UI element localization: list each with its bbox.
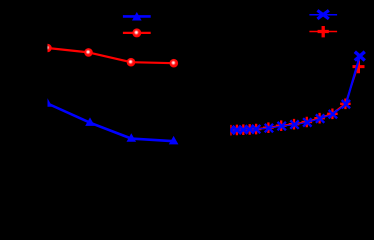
LEFT SUBPLOT xyxy=(43,44,179,145)
blue x marker 8 xyxy=(290,120,298,128)
red plus marker 9 xyxy=(302,117,313,128)
red series line (left plot) xyxy=(48,48,174,63)
blue x marker 11 xyxy=(329,110,337,118)
legend red line xyxy=(123,32,151,34)
legend blue line xyxy=(309,14,337,16)
red circle marker 1 xyxy=(43,44,52,53)
blue x marker 9 xyxy=(303,118,311,126)
blue x marker 2 xyxy=(233,126,241,134)
chart figure: two black-background subplots xyxy=(0,0,374,178)
blue triangle marker 4 xyxy=(169,136,179,145)
blue triangle marker 3 xyxy=(127,133,137,142)
legend red plus xyxy=(318,26,329,37)
blue x marker 10 xyxy=(316,114,324,122)
legend blue x xyxy=(317,10,328,19)
red plus marker 5 xyxy=(251,124,262,135)
red plus marker 6 xyxy=(263,122,274,133)
red plus marker 10 xyxy=(314,113,325,124)
blue triangle marker 1 xyxy=(43,98,53,107)
red plus marker 11 xyxy=(327,109,338,120)
red plus marker 3 xyxy=(238,124,249,135)
red plus marker 12 xyxy=(340,99,351,110)
blue x marker 1 xyxy=(226,126,234,134)
blue x marker 6 xyxy=(265,124,273,132)
red plus marker 8 xyxy=(289,119,300,130)
blue series line (left plot) xyxy=(48,104,174,142)
legend red circle xyxy=(132,28,141,37)
red series line (right plot, spike) xyxy=(345,67,357,104)
red circle marker 4 xyxy=(170,59,179,68)
legend red line xyxy=(309,31,337,33)
blue x marker 4 xyxy=(246,125,254,133)
RIGHT LEGEND xyxy=(309,10,337,37)
blue x markers (right plot) xyxy=(226,100,350,134)
RIGHT SUBPLOT xyxy=(225,52,365,136)
red plus markers (right plot) xyxy=(225,99,351,136)
red plus marker 7 xyxy=(276,120,287,131)
legend blue line xyxy=(123,15,151,18)
blue x marker 12 xyxy=(342,100,350,108)
blue x marker 3 xyxy=(239,126,247,134)
blue series line (right plot, flat part) xyxy=(231,104,346,130)
red plus marker 1 xyxy=(225,125,236,136)
red circle marker 2 xyxy=(84,48,93,57)
blue triangle marker 2 xyxy=(85,117,95,126)
red plus marker 4 xyxy=(244,124,255,135)
blue x final big marker xyxy=(355,52,365,61)
red plus final big marker xyxy=(353,60,365,73)
blue series line (right plot, spike) xyxy=(346,56,360,104)
red circle marker 3 xyxy=(127,58,136,67)
legend blue triangle xyxy=(132,12,142,21)
LEFT LEGEND xyxy=(123,12,151,37)
red series line (right plot, flat part) xyxy=(231,104,346,130)
blue x marker 5 xyxy=(252,125,260,133)
red plus marker 2 xyxy=(232,125,243,136)
blue x marker 7 xyxy=(278,122,286,130)
